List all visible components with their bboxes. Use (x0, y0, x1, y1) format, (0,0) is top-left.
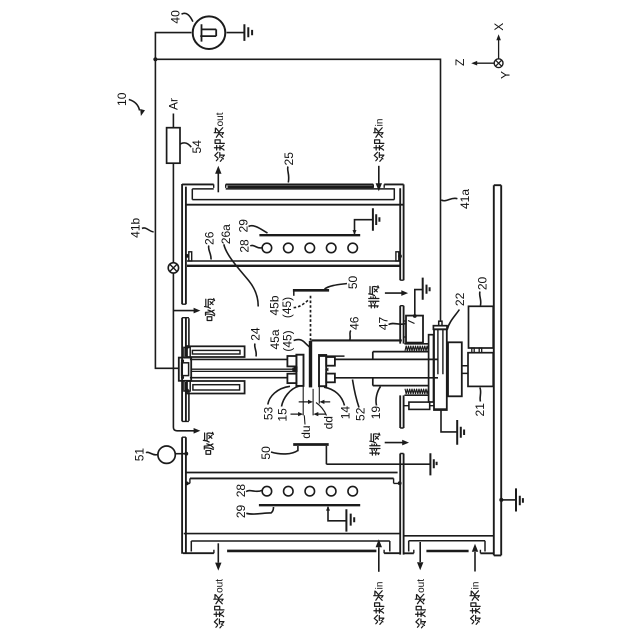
svg-text:52: 52 (354, 407, 368, 421)
cooling water out arrow (top) (217, 174, 219, 193)
counter electrode mounting wall (right tall plate) (494, 185, 501, 555)
ground (lower shield) (430, 453, 436, 475)
wire: drive unit to ground (441, 410, 457, 432)
shield plate 50 (lower) (293, 443, 329, 446)
exhaust label (lower) (370, 433, 380, 455)
svg-text:50: 50 (259, 446, 273, 460)
actuator box 47 (406, 316, 423, 343)
ground (power source 40) (227, 24, 253, 41)
cooling water out label (top) (214, 112, 226, 161)
controller box 20 (469, 306, 494, 348)
wall link to box 47 (404, 321, 406, 337)
drive unit 22 carriage (448, 342, 462, 396)
electrode frame top (319, 355, 345, 357)
cooling water in arrow (bottom left) (378, 547, 380, 572)
lower right chamber bottom wall (405, 535, 494, 537)
svg-text:28: 28 (234, 484, 248, 498)
coordinate axes X Z Y (453, 23, 513, 79)
cooling plate (right chamber) (426, 550, 468, 553)
label 20 (475, 277, 489, 306)
valve (circle-X) on Ar line (168, 263, 178, 273)
holder upper arm (187, 346, 245, 357)
wire: plate 29 to ground (lower) (328, 507, 346, 521)
upper chamber ceiling (inner line) (186, 204, 404, 206)
mask 45 deposition position 45a (solid) (309, 341, 312, 387)
svg-text:40: 40 (169, 10, 183, 24)
label 50 (lower) (259, 446, 298, 460)
label 41a (441, 189, 472, 209)
svg-text:21: 21 (473, 403, 487, 417)
cooling channel (top wall) (192, 188, 394, 199)
holder inner rod (191, 369, 294, 371)
svg-text:28: 28 (238, 239, 252, 253)
holder main shaft (190, 359, 288, 377)
svg-text:41a: 41a (458, 189, 472, 209)
cooling water in label (bottom right) (470, 582, 482, 625)
tray lip right (396, 252, 399, 261)
label dd (316, 403, 336, 430)
cooling water in label (bottom left) (374, 582, 386, 625)
label 54 (180, 140, 204, 154)
middle right wall (inner line) (399, 188, 401, 554)
svg-text:26a: 26a (219, 224, 233, 244)
spring contact (electrode) (325, 368, 329, 372)
top wall hooks (186, 478, 400, 483)
intake arrow (lower) (194, 428, 201, 434)
svg-text:in: in (374, 582, 385, 590)
Ar pipe to valve (172, 163, 174, 263)
node: tray-wall joints (185, 254, 189, 258)
label 14 (324, 387, 353, 419)
drive unit 22 body (439, 321, 442, 326)
svg-text:Ar: Ar (166, 98, 180, 110)
wire 41a: top rail to drive unit 22 (155, 59, 440, 321)
ground (right wall) (501, 488, 523, 511)
spring contact (holder) (292, 368, 296, 372)
outer tube 19 (373, 352, 429, 386)
lower chamber top wall (186, 472, 398, 474)
svg-text:(45): (45) (280, 297, 294, 318)
svg-text:15: 15 (275, 408, 289, 422)
bellows (lower) (405, 394, 429, 396)
inner liner plates beside holder (188, 318, 190, 421)
extension lines (303, 386, 319, 415)
label 24 (248, 327, 262, 356)
dimension du (291, 413, 326, 415)
heater plate 29 (upper chamber) (259, 234, 360, 236)
lower chamber bottom wall (184, 533, 400, 535)
label 10 (apparatus) with arrow (115, 92, 145, 116)
svg-text:53: 53 (261, 407, 275, 421)
svg-text:54: 54 (190, 140, 204, 154)
wire 41b: power source to substrate holder 24 (155, 33, 191, 369)
node: top rail junction (153, 57, 157, 61)
controller box 21 (468, 353, 493, 387)
cooling plate 25 (228, 186, 374, 189)
label 47 (376, 317, 406, 331)
label 15 (275, 386, 299, 422)
node: lower top wall joints (185, 482, 189, 486)
label 51 (132, 448, 157, 462)
label 40 (169, 10, 193, 24)
cooling water out label (bottom right) (415, 579, 427, 628)
heater elements 28 (lower chamber) (262, 486, 272, 496)
node: flange contacts (181, 359, 184, 362)
svg-text:14: 14 (339, 406, 353, 420)
mask support arm 46 (311, 339, 401, 341)
label 29 (upper) (237, 219, 268, 233)
heater elements 28 (upper chamber) (262, 243, 272, 253)
svg-text:out: out (214, 579, 225, 593)
label 21 (473, 388, 487, 417)
node: wall ground joint (499, 498, 503, 502)
connector nubs between 20 and 21 (472, 348, 474, 353)
intake label (upper) (205, 299, 215, 321)
right chamber outer bottom line (404, 552, 494, 554)
svg-text:41b: 41b (128, 217, 142, 237)
label 45b (45) (268, 295, 309, 318)
heater plate 29 (lower chamber) (259, 504, 360, 506)
label 26 (202, 231, 216, 259)
counter electrode plate 14 (319, 355, 326, 386)
label 45a (45) (268, 329, 310, 352)
shaft 52 (335, 359, 438, 377)
ground (drive unit 22) (457, 420, 464, 445)
label 52 (353, 380, 368, 421)
svg-text:46: 46 (348, 316, 362, 330)
wire: plate 29 to ground (upper) (355, 220, 373, 234)
middle right wall (outer line) (403, 184, 405, 554)
svg-text:51: 51 (132, 448, 146, 462)
chamber left wall (outer line) (181, 184, 183, 554)
cooling water in arrow (bottom right) (474, 552, 476, 572)
svg-text:Z: Z (453, 59, 467, 66)
holder feedthrough flange (179, 358, 191, 381)
svg-text:47: 47 (376, 317, 390, 331)
svg-text:29: 29 (234, 505, 248, 519)
cooling water out label (bottom left) (214, 579, 226, 628)
label 41b (128, 217, 153, 237)
svg-text:20: 20 (475, 277, 489, 291)
svg-text:26: 26 (202, 231, 216, 245)
svg-text:Y: Y (499, 71, 513, 79)
chamber left wall (inner line) (185, 187, 187, 553)
label 26a (219, 224, 258, 307)
label 53 (261, 386, 290, 420)
damper box (lower) (409, 402, 430, 409)
intake label (lower) (203, 432, 213, 454)
Ar pipe to intake ports (173, 273, 194, 431)
holder lower arm (187, 381, 245, 394)
label 22 (447, 292, 467, 329)
svg-text:(45): (45) (280, 330, 294, 351)
electrode clamps (326, 357, 335, 366)
bottom wall outer line (183, 552, 400, 554)
shield plate 50 (upper) (293, 289, 329, 292)
cooling water out arrow (bottom left) (217, 543, 219, 562)
exhaust label (upper) (369, 286, 379, 308)
label du (299, 415, 313, 438)
wire: lower shield to ground (326, 463, 429, 465)
substrate holder plate 53 (296, 355, 303, 386)
label 29 (lower) (234, 505, 274, 519)
label 19 (369, 387, 383, 420)
ground (upper chamber plate 29) (373, 208, 380, 231)
dimension dd (299, 401, 331, 403)
svg-text:X: X (492, 23, 506, 31)
mask 45 retracted position 45b (dashed) (310, 296, 312, 341)
wall port caps (182, 304, 189, 437)
svg-text:out: out (416, 579, 427, 593)
flange plate of drive unit (429, 335, 434, 402)
bellows (upper) (405, 343, 429, 345)
cooling water in label (top) (374, 119, 386, 162)
svg-text:du: du (299, 425, 313, 438)
svg-text:dd: dd (322, 416, 336, 429)
exhaust arrow (lower) (385, 442, 403, 444)
top wall outer line (182, 183, 404, 185)
svg-text:25: 25 (282, 152, 296, 166)
label 25 (282, 152, 296, 183)
cooling water out arrow (bottom right) (419, 542, 421, 562)
tray lip left (189, 252, 192, 261)
svg-text:out: out (215, 112, 226, 126)
svg-text:10: 10 (115, 92, 129, 106)
cooling water in arrow (top) (378, 166, 380, 184)
holder clamps (287, 356, 296, 366)
ground (box 47) (415, 278, 430, 316)
water port ticks (top wall) (214, 184, 385, 188)
power source 40 (pulse DC supply) (193, 16, 226, 49)
mass flow controller 54 (167, 128, 180, 164)
label 28 (upper) (238, 239, 262, 253)
right wall port caps (400, 280, 403, 453)
Ar supply line (172, 114, 174, 128)
svg-text:22: 22 (453, 292, 467, 306)
label 46 (348, 316, 362, 340)
node: wire to box 47 (413, 314, 417, 318)
svg-text:19: 19 (369, 406, 383, 420)
svg-text:24: 24 (248, 327, 262, 341)
intake arrow (upper) (173, 310, 194, 312)
label 50 (upper) (325, 276, 360, 290)
evaporation source tray 26 (floor) (187, 260, 400, 262)
ground (lower chamber plate 29) (346, 509, 354, 531)
svg-text:in: in (471, 582, 482, 590)
cooling plate (bottom wall) (227, 550, 376, 553)
label 28 (lower) (234, 484, 262, 498)
pressure gauge 51 (158, 446, 175, 463)
exhaust arrow (upper) (385, 292, 402, 294)
svg-text:in: in (374, 119, 385, 127)
svg-text:50: 50 (346, 276, 360, 290)
node: liner-arm joints (185, 345, 189, 349)
